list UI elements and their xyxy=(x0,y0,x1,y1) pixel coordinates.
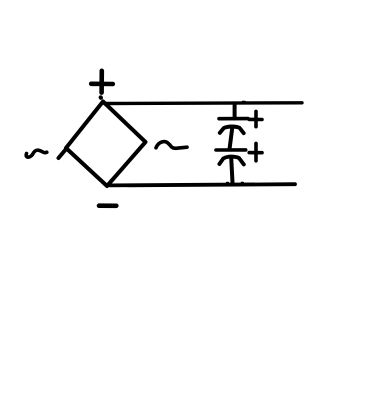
wire capacitor drop from top rail xyxy=(233,104,237,119)
AC input squiggle left xyxy=(26,150,47,157)
capacitor C2 xyxy=(216,150,246,165)
bridge rectifier D1 (diamond) xyxy=(66,102,146,187)
capacitor C2 plus mark xyxy=(249,143,262,160)
wire C1 to C2 xyxy=(230,128,233,150)
wire C2 to bottom rail xyxy=(231,158,232,185)
wire top rail xyxy=(105,102,303,104)
wire bottom rail xyxy=(110,183,295,186)
plus output polarity mark xyxy=(91,71,113,98)
capacitor C1 xyxy=(219,119,248,134)
capacitor C1 plus mark xyxy=(249,111,262,126)
minus output polarity mark xyxy=(99,203,116,208)
AC input squiggle right xyxy=(156,142,187,149)
AC input lead stub left xyxy=(59,149,67,159)
